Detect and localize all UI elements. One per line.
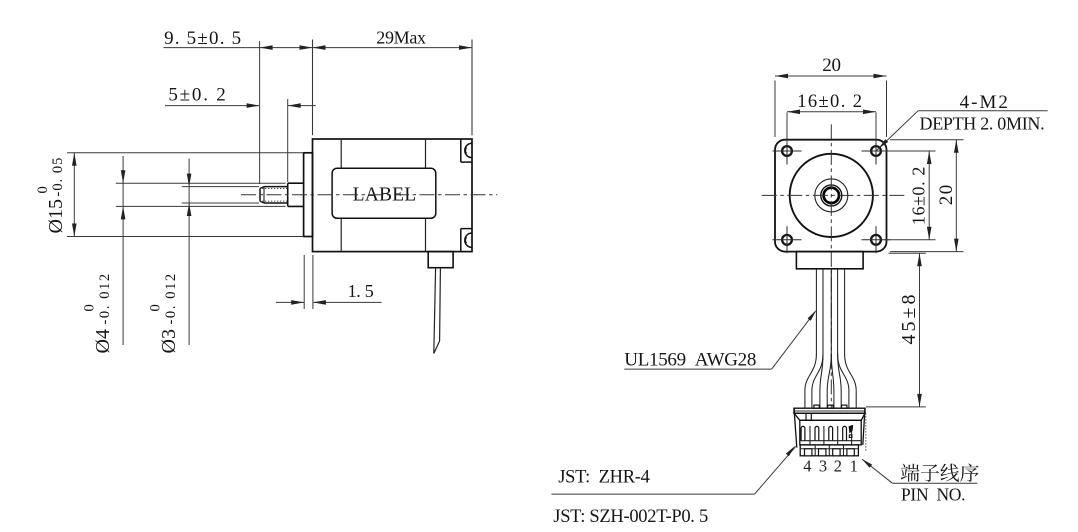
O4 top extension line: [116, 182, 286, 184]
1.5 extension line right: [312, 255, 314, 309]
M2 screw hole bottom-right: [871, 235, 881, 245]
top rear relief arc: [465, 143, 472, 157]
wire fan edge 4: [827, 354, 831, 408]
screw hole top-right v-tick: [875, 138, 877, 165]
feet divider 1: [814, 445, 816, 456]
top rear notch horizontal: [461, 161, 472, 163]
screw hole bottom-right h-tick: [862, 239, 891, 241]
bottom rear notch horizontal: [461, 228, 472, 230]
UL1569 leader diagonal: [772, 311, 816, 369]
arrow 9.5 right: [300, 45, 313, 50]
wire crimp bump 2: [828, 405, 833, 408]
contact slot pin 3: [815, 426, 819, 440]
PIN NO. underline: [892, 482, 977, 484]
thread root dotted bottom: [262, 200, 287, 202]
CJK char duan of terminal wire order note: [901, 464, 920, 482]
svg-text:DEPTH 2. 0MIN.: DEPTH 2. 0MIN.: [920, 114, 1045, 134]
UL1569 arrowhead: [808, 309, 818, 321]
connector collar: [794, 413, 865, 420]
arrow O15 bottom: [72, 224, 77, 237]
right 16 extension top: [884, 150, 936, 152]
shaft circle O4: [821, 185, 842, 206]
arrow O3 bottom: [187, 203, 192, 216]
O15 bottom extension line: [67, 236, 304, 238]
45 dimension line: [919, 253, 921, 407]
bearing boss circle: [815, 179, 848, 212]
45 extension top: [889, 252, 926, 254]
JST ZHR-4 underline: [551, 493, 754, 495]
16 extension left: [786, 113, 788, 144]
thread root dotted top: [262, 188, 287, 190]
pilot boss plate O15: [304, 153, 313, 237]
dimension line 9.5 and 29Max: [164, 47, 473, 49]
svg-text:UL1569 AWG28: UL1569 AWG28: [624, 349, 756, 370]
arrow 45 bottom: [917, 394, 922, 407]
1.5 dim line right tail: [313, 301, 382, 303]
connector right dotted edge: [865, 413, 867, 450]
pilot circle O15: [790, 154, 873, 237]
shaft O3 bottom edge: [264, 202, 288, 204]
dimension line 5+-0.2 right part: [288, 105, 316, 107]
shaft step face: [287, 183, 289, 206]
wire bundle edge 2: [822, 269, 824, 355]
body seam line rear: [425, 139, 427, 252]
shaft tip face: [259, 188, 261, 201]
svg-text:JST: ZHR-4: JST: ZHR-4: [558, 467, 649, 487]
right 20 extension top: [890, 139, 964, 141]
1.5 dim line left tail: [276, 301, 304, 303]
connector right outer edge: [863, 408, 865, 445]
wire fan edge 3: [820, 354, 823, 408]
svg-text:PIN NO.: PIN NO.: [901, 485, 965, 505]
arrow 20 right: [874, 74, 887, 79]
polarity small mark: [849, 435, 852, 438]
arrow 29 right: [459, 45, 472, 50]
contact slot pin 4: [801, 426, 805, 440]
wire bundle edge 1: [815, 269, 817, 355]
polarity mark: [849, 425, 854, 434]
connector left outer edge: [794, 408, 797, 447]
shaft O3 top edge: [264, 186, 288, 188]
foot pad pin 4: [805, 449, 812, 456]
cavity divider 4: [851, 426, 853, 445]
screw hole bottom-left h-tick: [773, 239, 802, 241]
20 extension left: [774, 81, 776, 138]
O4 bottom extension line: [116, 205, 286, 207]
svg-text:2: 2: [834, 456, 842, 475]
cavity shelf line: [800, 440, 861, 442]
arrow 9.5 left: [260, 45, 273, 50]
front face square 20x20: [775, 140, 887, 252]
lead wire right edge side view: [439, 268, 442, 341]
shaft O4 top edge: [288, 182, 304, 184]
arrow 16 left: [787, 110, 800, 115]
arrow 5 right: [288, 103, 301, 108]
JST ZHR-4 leader diagonal: [755, 446, 796, 494]
wire fan edge 5: [831, 354, 834, 408]
svg-text:5±0. 2: 5±0. 2: [168, 85, 227, 106]
O3 bottom extension line: [182, 202, 259, 204]
screw hole bottom-right v-tick: [875, 226, 877, 253]
arrow O3 top: [187, 174, 192, 187]
arrow O15 top: [72, 153, 77, 166]
1.5 extension line left: [303, 255, 305, 309]
extension line shaft step: [287, 99, 289, 182]
arrow 45 top: [917, 253, 922, 266]
JST ZHR-4 arrowhead: [786, 444, 797, 456]
CJK char zi of terminal wire order note: [921, 464, 939, 481]
svg-text:20: 20: [822, 55, 840, 76]
M2 screw hole top-right: [871, 146, 881, 156]
bottom rear relief arc: [465, 233, 472, 247]
connector latch: [806, 413, 811, 420]
extension line shaft tip: [259, 41, 261, 184]
extension line flange face: [312, 40, 314, 136]
20 dimension line: [775, 75, 887, 77]
arrow right20 top: [954, 140, 959, 153]
motor body side view: [313, 139, 473, 252]
wire bundle edge 3: [830, 269, 832, 355]
chamfer end line: [263, 187, 265, 203]
cavity divider 2: [823, 426, 825, 445]
4-M2 leader diagonal: [876, 111, 918, 151]
feet inner shelf line: [800, 448, 858, 450]
wire fan edge 7: [838, 354, 849, 408]
arrow 29 left: [313, 45, 326, 50]
wire fan edge 2: [812, 354, 823, 408]
wire exit block side view: [428, 252, 453, 268]
arrow 16 right: [863, 110, 876, 115]
bottom relief inner dent: [465, 237, 466, 243]
O3 top extension line: [182, 186, 259, 188]
O15 top extension line: [67, 152, 304, 154]
arrow 5 left: [247, 103, 260, 108]
UL1569 underline: [624, 368, 771, 370]
arrow right16 top: [927, 151, 932, 164]
O15 dimension line: [73, 153, 75, 237]
arrow 1.5 right: [313, 300, 326, 305]
screw hole top-right h-tick: [862, 150, 891, 152]
wire exit block front view: [796, 252, 863, 269]
foot pad pin 3: [819, 449, 826, 456]
O3 dimension line: [188, 159, 190, 346]
svg-text:29Max: 29Max: [376, 28, 426, 48]
svg-text:1: 1: [850, 456, 858, 475]
svg-text:9. 5±0. 5: 9. 5±0. 5: [164, 28, 242, 49]
CJK char xian of terminal wire order note: [940, 464, 959, 482]
svg-text:45±8: 45±8: [898, 292, 920, 345]
arrow right20 bottom: [954, 239, 959, 252]
front view vertical centerline: [830, 124, 832, 407]
screw hole top-left v-tick: [786, 138, 788, 165]
front view horizontal centerline: [762, 194, 906, 196]
16 extension right: [875, 113, 877, 144]
right 16 dimension line: [928, 151, 930, 240]
CJK char xu of terminal wire order note: [960, 464, 978, 482]
connector cap inner line: [794, 410, 865, 412]
svg-text:4-M2: 4-M2: [960, 92, 1010, 113]
connector feet strip: [800, 445, 858, 456]
screw hole bottom-left v-tick: [786, 226, 788, 253]
arrow O4 bottom: [121, 206, 126, 219]
right 20 dimension line: [955, 140, 957, 252]
M2 screw hole bottom-left: [782, 235, 792, 245]
right 20 extension bottom: [890, 251, 964, 253]
svg-text:JST: SZH-002T-P0. 5: JST: SZH-002T-P0. 5: [553, 507, 708, 527]
tip chamfer bottom: [260, 201, 264, 203]
arrow 1.5 left: [291, 300, 304, 305]
arrow right16 bottom: [927, 227, 932, 240]
feet divider 3: [843, 445, 845, 456]
foot pad pin 1: [847, 449, 854, 456]
wire bundle edge 5: [844, 269, 846, 355]
wire fan edge 1: [805, 354, 817, 408]
wire crimp bump 1: [814, 405, 819, 408]
svg-text:16±0. 2: 16±0. 2: [909, 166, 929, 225]
contact slot pin 1: [843, 426, 847, 440]
4-M2 leader arrowhead: [877, 139, 888, 150]
svg-text:20: 20: [936, 183, 957, 205]
svg-text:3: 3: [819, 456, 827, 475]
PIN NO. arrowhead: [860, 457, 872, 468]
wire fan edge 8: [845, 354, 857, 408]
body seam line front: [340, 139, 342, 252]
dimension line 5+-0.2 left part: [165, 105, 260, 107]
lead wire left edge side view: [434, 268, 436, 354]
wire fan edge 6: [838, 354, 842, 408]
LABEL box: [332, 168, 436, 218]
connector top cap: [794, 408, 865, 413]
O4 dimension line: [122, 156, 124, 345]
lead wire cut tip: [434, 341, 440, 354]
arrow O4 top: [121, 170, 126, 183]
svg-text:16±0. 2: 16±0. 2: [797, 92, 863, 112]
tip chamfer top: [260, 187, 264, 189]
feet divider 2: [828, 445, 830, 456]
M2 screw hole top-left: [782, 146, 792, 156]
shaft circle O3 thick: [824, 188, 839, 203]
svg-text:1. 5: 1. 5: [348, 281, 374, 301]
right 16 extension bottom: [884, 239, 936, 241]
bottom rear notch vertical: [460, 229, 462, 252]
wire bundle edge 4: [837, 269, 839, 355]
top relief inner dent: [465, 148, 466, 154]
shaft O4 bottom edge: [288, 205, 304, 207]
side view centerline: [241, 194, 497, 196]
connector cavity: [800, 420, 861, 445]
20 extension right: [886, 81, 888, 138]
cavity divider 3: [837, 426, 839, 445]
contact slot pin 2: [829, 426, 833, 440]
cavity divider 1: [809, 426, 811, 445]
PIN NO. leader diagonal: [862, 459, 892, 483]
16 dimension line: [787, 111, 876, 113]
foot pad pin 2: [833, 449, 840, 456]
svg-text:4: 4: [803, 456, 811, 475]
screw hole top-left h-tick: [773, 150, 802, 152]
extension line body rear: [471, 40, 473, 136]
wire crimp bump 3: [842, 405, 847, 408]
arrow 20 left: [775, 74, 788, 79]
top rear notch vertical: [460, 139, 462, 162]
45 extension bottom: [866, 406, 926, 408]
4-M2 leader underline: [918, 110, 1047, 112]
